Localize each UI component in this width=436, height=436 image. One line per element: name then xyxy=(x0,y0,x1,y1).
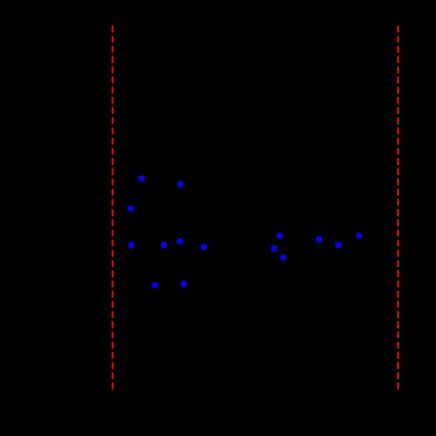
data point 15 xyxy=(356,233,362,239)
data point 11 xyxy=(271,245,277,251)
data point 7 xyxy=(201,244,207,250)
data point 12 xyxy=(280,255,286,261)
data point 6 xyxy=(177,238,183,244)
data point 14 xyxy=(335,242,341,248)
data point 8 xyxy=(152,282,158,288)
data point 13 xyxy=(316,236,322,242)
data point 1 xyxy=(139,175,145,181)
data point 10 xyxy=(277,233,283,239)
data point 4 xyxy=(128,242,134,248)
right threshold line (red dashed) xyxy=(397,25,399,389)
data point 9 xyxy=(181,281,187,287)
left threshold line (red dashed) xyxy=(112,25,114,389)
data point 5 xyxy=(161,242,167,248)
data point 3 xyxy=(128,205,134,211)
data point 2 xyxy=(177,181,183,187)
